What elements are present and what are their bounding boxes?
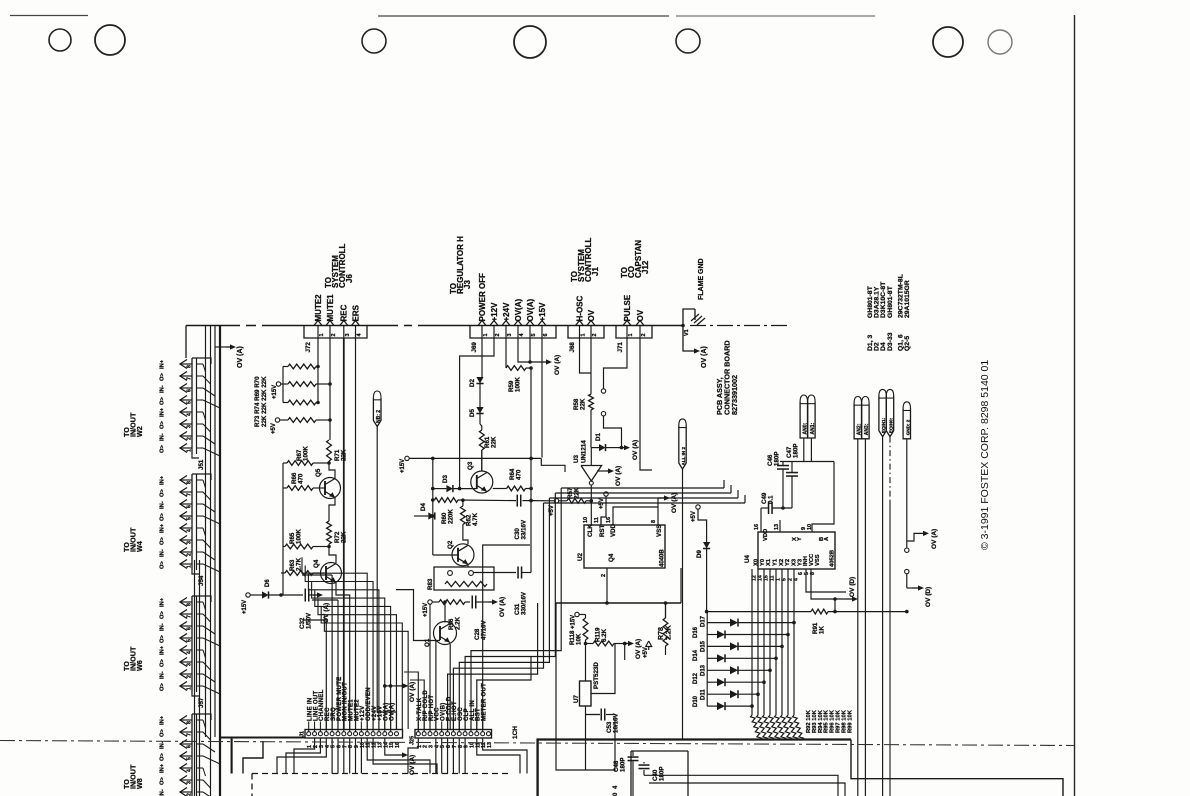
left bus vertical 6	[199, 560, 201, 796]
svg-text:X2: X2	[779, 559, 785, 566]
svg-text:33/16V: 33/16V	[521, 519, 528, 539]
svg-text:MUTE2: MUTE2	[314, 294, 323, 322]
J1 pin 2	[313, 732, 317, 736]
svg-text:IN+: IN+	[160, 597, 166, 607]
svg-text:D5: D5	[469, 409, 476, 417]
wire +15V rail	[409, 457, 541, 459]
wire diode matrix left rail	[706, 612, 708, 707]
wire bundle J25 to U2 area staircase	[448, 603, 538, 729]
svg-text:1: 1	[187, 449, 193, 452]
svg-text:IN+: IN+	[160, 645, 166, 655]
resistor R72 22K	[327, 521, 332, 544]
wire C53 loop	[556, 603, 586, 770]
svg-text:+15V: +15V	[538, 302, 547, 322]
svg-text:OV: OV	[587, 309, 596, 321]
wire J69 pin6 +15V rail	[541, 338, 543, 458]
power +15V terminal Q1	[428, 600, 432, 604]
wire C30 node to +5V	[529, 499, 533, 503]
svg-text:1: 1	[581, 333, 587, 336]
wire bottom long 2	[649, 783, 845, 796]
resistor R61 22K	[479, 414, 481, 424]
left bus vertical 1	[205, 326, 207, 738]
diode D10	[707, 705, 717, 707]
power +15V terminal U7	[575, 612, 579, 616]
diode D13	[707, 669, 730, 671]
svg-text:3: 3	[187, 663, 193, 666]
svg-text:8: 8	[187, 603, 193, 606]
wire +15V terminal to J25 pin3	[429, 604, 431, 729]
node V1 junction	[681, 324, 685, 328]
svg-text:2.2K: 2.2K	[666, 625, 673, 640]
svg-text:22K: 22K	[341, 531, 348, 543]
svg-text:X1: X1	[766, 558, 772, 566]
wires below J1 right jogs	[367, 738, 430, 774]
J1 pin 8	[348, 732, 352, 736]
top edge line	[10, 15, 88, 17]
connector J1 header	[305, 730, 403, 739]
svg-text:+24V: +24V	[502, 302, 511, 322]
J25 pin 12	[481, 732, 485, 736]
wire U3 side OV(A)	[597, 470, 606, 472]
svg-text:OV (A): OV (A)	[701, 346, 708, 368]
wire R60 row	[458, 499, 516, 502]
resistor R91 1K	[811, 609, 828, 614]
svg-text:100K: 100K	[515, 377, 522, 392]
connector J69	[470, 326, 556, 339]
svg-text:+15V: +15V	[242, 600, 248, 614]
svg-text:AN3:: AN3:	[864, 423, 870, 435]
svg-text:GND: 2: GND: 2	[905, 419, 910, 435]
connector J54 group	[191, 474, 193, 570]
wire J72 pin3 down to J1 pin7 (bold)	[343, 338, 345, 729]
wire ALL IN down	[682, 469, 684, 740]
svg-text:D10: D10	[693, 695, 699, 707]
svg-text:U4: U4	[744, 555, 751, 563]
wire Q1 base	[396, 590, 440, 641]
svg-text:8273391002: 8273391002	[730, 375, 739, 415]
wire J68 pin1 down	[580, 338, 592, 373]
resistor R78 2.2K	[665, 603, 667, 618]
svg-text:VDD: VDD	[763, 529, 769, 541]
svg-text:D15: D15	[701, 640, 707, 652]
J25 pin 5	[440, 732, 444, 736]
dashed boundary bottom	[252, 773, 512, 775]
svg-text:OV(A): OV(A)	[526, 299, 535, 322]
resistor R57 22K	[559, 500, 567, 502]
wire bundle Q area to J1 pins	[331, 575, 333, 729]
svg-text:OV (A): OV (A)	[632, 440, 639, 460]
svg-text:220K: 220K	[448, 509, 455, 524]
wires below J1 staircase left	[294, 738, 315, 774]
U4 pin bus verticals	[751, 569, 753, 715]
punch hole 3	[362, 29, 386, 53]
svg-text:OV (D): OV (D)	[925, 587, 932, 607]
svg-text:Q4: Q4	[313, 559, 320, 568]
svg-text:W8: W8	[135, 778, 144, 789]
svg-text:10K: 10K	[576, 633, 583, 645]
test point terminal upper	[601, 389, 605, 393]
svg-text:RST: RST	[599, 524, 606, 537]
svg-text:6: 6	[187, 627, 193, 630]
svg-text:3: 3	[187, 781, 193, 784]
svg-text:X0: X0	[754, 559, 760, 566]
svg-text:5: 5	[187, 639, 193, 642]
svg-text:D3-33: D3-33	[887, 332, 894, 351]
power +15V terminal	[276, 382, 280, 386]
terminal OV(D) right	[905, 569, 909, 573]
svg-text:6: 6	[187, 745, 193, 748]
svg-text:1: 1	[187, 687, 193, 690]
J1 pin 7	[342, 732, 346, 736]
resistor R65 100K	[285, 544, 313, 549]
J1 pin 4	[324, 732, 328, 736]
OV(A) arrow U7	[625, 643, 629, 645]
connector J57 group	[191, 596, 193, 692]
svg-text:O>: O>	[160, 728, 166, 737]
OV(A) arrow below J1	[385, 738, 396, 755]
svg-text:+5V: +5V	[691, 511, 697, 522]
svg-text:3: 3	[345, 333, 351, 336]
svg-text:W6: W6	[135, 660, 144, 671]
resistor R74	[288, 382, 316, 387]
svg-text:IN+: IN+	[160, 763, 166, 773]
svg-text:O>: O>	[160, 658, 166, 667]
svg-text:U7: U7	[573, 695, 580, 703]
svg-text:Q4: Q4	[608, 553, 615, 562]
wire rail right end	[680, 568, 682, 603]
wire Q4 emitter to J1 pin8	[336, 583, 350, 729]
wire right side down to U4	[812, 462, 834, 533]
svg-text:16: 16	[606, 517, 612, 523]
capacitor C40 180P	[643, 762, 645, 764]
svg-text:D12: D12	[693, 672, 699, 684]
net flag AN1	[808, 395, 815, 402]
J1 pin 11	[365, 732, 369, 736]
capacitor C48 180P	[632, 751, 634, 756]
svg-text:8: 8	[187, 481, 193, 484]
resistor R73	[288, 364, 316, 369]
wire R61 to Q3 collector	[481, 450, 483, 471]
terminal OV(A) right	[905, 548, 909, 552]
diode D6	[250, 594, 262, 596]
svg-text:470: 470	[298, 473, 305, 484]
svg-text:OV (A): OV (A)	[499, 597, 506, 617]
svg-text:2: 2	[187, 437, 193, 440]
bottom cap box	[631, 750, 688, 752]
transistor Q2	[452, 544, 474, 566]
svg-text:J6: J6	[345, 274, 354, 283]
svg-text:D11: D11	[701, 689, 707, 700]
OV(A) arrow U2 VSS	[657, 498, 659, 507]
wire Q2 base	[433, 554, 458, 556]
J25 pin 6	[446, 732, 450, 736]
svg-text:+15V: +15V	[272, 385, 278, 399]
diode D14	[707, 657, 717, 659]
svg-text:D6: D6	[265, 579, 271, 587]
J25 pin 10	[469, 732, 473, 736]
svg-text:6.2K: 6.2K	[601, 628, 608, 642]
punch hole 1	[49, 29, 71, 51]
svg-text:3: 3	[187, 425, 193, 428]
diode D1	[599, 444, 606, 451]
svg-text:R78: R78	[658, 627, 665, 640]
svg-text:2: 2	[601, 574, 607, 577]
wire AN3 down	[864, 439, 866, 796]
svg-text:7: 7	[187, 493, 193, 496]
svg-text:Y0: Y0	[760, 559, 766, 566]
svg-text:J1: J1	[300, 731, 306, 737]
svg-text:D4: D4	[420, 503, 427, 511]
diode D5	[479, 384, 481, 407]
wire J69 pin2 elbow	[460, 338, 494, 489]
svg-text:O>: O>	[160, 396, 166, 405]
svg-text:Q2-5: Q2-5	[904, 336, 911, 351]
svg-text:22K: 22K	[491, 436, 498, 448]
svg-text:J25: J25	[410, 736, 416, 745]
J1 pin 13	[377, 732, 381, 736]
wire bus top to strip	[185, 326, 187, 359]
diode D11	[707, 693, 730, 695]
resistor R67 100K	[287, 461, 313, 466]
wire J25 BST column up	[477, 656, 531, 729]
svg-text:OV (A): OV (A)	[671, 493, 678, 513]
svg-text:13: 13	[774, 524, 780, 530]
svg-text:IN+: IN+	[160, 407, 166, 417]
punch hole 6	[933, 27, 963, 57]
svg-text:PST523D: PST523D	[593, 662, 600, 689]
power +15V terminal for D6	[246, 593, 250, 597]
svg-text:IN+: IN+	[160, 523, 166, 533]
svg-text:OV(A): OV(A)	[514, 299, 523, 322]
capacitor C47 180P	[791, 462, 793, 473]
svg-text:H-OSC: H-OSC	[575, 296, 584, 322]
resistor R58 22K	[590, 373, 592, 394]
wire AN0 down	[803, 438, 805, 462]
wire Q3 collector	[481, 450, 483, 471]
wire J69 pin3 to R59	[505, 338, 507, 368]
left bus vertical 5	[194, 560, 196, 796]
svg-text:J51: J51	[198, 459, 205, 470]
svg-text:2: 2	[187, 675, 193, 678]
wire J68 pin2 down	[590, 338, 592, 373]
wire AN2 down	[857, 439, 859, 796]
resistors R92-R99 10K	[750, 715, 761, 740]
svg-text:2: 2	[331, 333, 337, 336]
J25 pin 9	[463, 732, 467, 736]
svg-text:1: 1	[319, 333, 325, 336]
svg-text:180P: 180P	[620, 758, 627, 772]
left bus vertical 2	[210, 326, 212, 796]
connector J25 header	[415, 730, 492, 739]
punch hole 4	[514, 26, 546, 58]
resistor R59 100K	[506, 366, 526, 371]
svg-text:22K: 22K	[580, 398, 587, 410]
svg-text:1CH: 1CH	[512, 726, 519, 739]
net flag AN2	[854, 397, 861, 404]
U4 right bottom pins to OV(D)	[806, 569, 846, 592]
resistor R62 4.7K	[462, 500, 464, 506]
capacitor C53 10/16V	[585, 706, 587, 770]
svg-text:IN+: IN+	[160, 359, 166, 369]
op-amp U3 UN1214	[581, 466, 602, 482]
wire J72 pin1 down	[317, 338, 319, 403]
svg-text:10: 10	[583, 517, 589, 523]
svg-text:5: 5	[531, 333, 537, 336]
svg-text:O>: O>	[160, 512, 166, 521]
diode D3	[433, 488, 447, 490]
left bus vertical 3	[214, 326, 216, 738]
svg-text:OV (D): OV (D)	[849, 577, 856, 597]
punch hole 5	[676, 29, 700, 53]
net flag AN0	[800, 395, 807, 402]
svg-text:8: 8	[810, 572, 816, 575]
svg-text:7: 7	[187, 615, 193, 618]
svg-text:O>: O>	[160, 536, 166, 545]
svg-text:5: 5	[187, 401, 193, 404]
transistor Q4	[321, 563, 342, 584]
svg-text:11: 11	[594, 517, 600, 523]
diode D2	[481, 373, 483, 377]
svg-text:R73 R74 R69 R70: R73 R74 R69 R70	[254, 376, 261, 427]
wire AN1 down	[810, 438, 812, 462]
wire cluster left joins	[282, 367, 284, 403]
J25 pin 2	[422, 732, 426, 736]
transistor Q5	[320, 478, 341, 499]
svg-text:10: 10	[807, 524, 813, 530]
wire to OV(A) below V1	[683, 326, 688, 352]
wire EQIN0 down	[889, 437, 891, 500]
wire cluster column	[282, 463, 284, 595]
svg-text:IN-: IN-	[160, 741, 166, 749]
resistor R119 6.2K	[584, 642, 588, 646]
connector J68	[568, 326, 604, 339]
svg-text:OV (A): OV (A)	[409, 682, 416, 702]
svg-text:+15V: +15V	[400, 459, 406, 473]
svg-text:8: 8	[651, 520, 657, 523]
svg-text:Q2: Q2	[447, 540, 454, 549]
svg-text:4.7K: 4.7K	[472, 512, 479, 526]
net flag EQIN1	[879, 389, 886, 396]
svg-text:GH801-8T: GH801-8T	[887, 285, 894, 318]
svg-text:EQIN0:: EQIN0:	[889, 417, 894, 433]
wire +5V to U2 pin16	[601, 496, 606, 525]
svg-text:O>: O>	[160, 560, 166, 569]
svg-text:1: 1	[483, 333, 489, 336]
power +5V terminal U2	[604, 492, 608, 496]
svg-text:0.1: 0.1	[768, 495, 775, 504]
svg-text:4: 4	[187, 413, 193, 416]
J25 pin 13	[487, 732, 491, 736]
svg-text:D14: D14	[693, 649, 699, 661]
wire rail to R78 top	[665, 603, 667, 618]
svg-text:180P: 180P	[774, 452, 781, 466]
wire J71 pin2 down	[640, 338, 652, 470]
J25 pin 8	[457, 732, 461, 736]
wire Q2 emitter	[467, 564, 469, 567]
wire J25 pin10 up	[470, 651, 472, 729]
svg-text:OV(A): OV(A)	[388, 702, 395, 721]
svg-text:IN+: IN+	[160, 715, 166, 725]
wires below J25	[408, 738, 418, 774]
resistor R70	[288, 418, 316, 423]
svg-text:2: 2	[495, 333, 501, 336]
wire U7 side	[591, 644, 615, 694]
resistor R69	[288, 400, 316, 405]
wire METER OUT column up	[483, 545, 530, 729]
power +5V triangle	[646, 641, 652, 647]
wire to frame ground	[683, 309, 695, 326]
wire NB:2 down	[377, 427, 396, 730]
capacitor C30 33/16V	[516, 495, 518, 507]
wire C32 to OV(A)	[309, 594, 312, 596]
svg-text:UN1214: UN1214	[581, 440, 588, 463]
svg-text:IN-: IN-	[160, 501, 166, 509]
wire EQIN1 down	[882, 437, 884, 796]
svg-text:2: 2	[592, 333, 598, 336]
IC U4 4052B	[758, 532, 835, 569]
U2 pin 2 wire	[606, 568, 608, 603]
connector J71	[616, 326, 652, 339]
svg-text:D17: D17	[701, 615, 707, 627]
svg-text:+5V: +5V	[643, 647, 649, 658]
wire Q5 emitter to R72	[329, 498, 335, 522]
svg-text:+15V: +15V	[571, 615, 577, 629]
wires below J1 straight	[331, 738, 333, 774]
svg-text:O>: O>	[160, 420, 166, 429]
svg-text:D2: D2	[469, 379, 476, 387]
diode D9	[698, 509, 707, 542]
wire J69 pin4 to OV(A)	[518, 338, 542, 362]
svg-text:MUTE1: MUTE1	[326, 294, 335, 322]
frame ground symbol	[694, 309, 696, 320]
svg-text:Y: Y	[797, 537, 803, 541]
svg-text:470: 470	[516, 469, 523, 480]
svg-text:OV (A): OV (A)	[615, 466, 622, 486]
wire D6 to C32	[269, 594, 303, 596]
svg-text:D16: D16	[693, 626, 699, 638]
svg-text:6: 6	[187, 389, 193, 392]
wire R62 to Q2 collector	[463, 524, 468, 544]
resistor R71 22K	[327, 440, 332, 461]
IC U2 4040B	[584, 525, 665, 568]
svg-text:R99 10K: R99 10K	[847, 709, 853, 733]
svg-text:22K 22K 22K 22K: 22K 22K 22K 22K	[261, 376, 268, 427]
punch hole 2	[95, 25, 125, 55]
svg-text:IN-: IN-	[160, 671, 166, 679]
svg-text:3: 3	[507, 333, 513, 336]
svg-text:U3: U3	[573, 455, 580, 463]
J1 pin 10	[359, 732, 363, 736]
svg-text:METER OUT: METER OUT	[480, 683, 487, 721]
svg-text:VSS: VSS	[815, 554, 821, 566]
svg-text:O>: O>	[160, 610, 166, 619]
resistor R64 470	[493, 488, 507, 490]
1CH block outline	[538, 740, 851, 796]
svg-text:16: 16	[395, 742, 401, 748]
svg-text:+5V: +5V	[271, 423, 277, 434]
svg-text:O>: O>	[160, 634, 166, 643]
svg-text:7: 7	[187, 377, 193, 380]
J25 pin 4	[434, 732, 438, 736]
svg-text:R83: R83	[427, 578, 434, 590]
svg-text:O>: O>	[160, 444, 166, 453]
svg-text:IN-: IN-	[160, 789, 166, 796]
power +5V terminal R57	[554, 499, 558, 503]
svg-text:X3: X3	[791, 558, 797, 566]
svg-text:D9: D9	[696, 550, 703, 558]
net flag NB:2	[373, 391, 381, 398]
svg-text:4040B: 4040B	[660, 549, 666, 567]
